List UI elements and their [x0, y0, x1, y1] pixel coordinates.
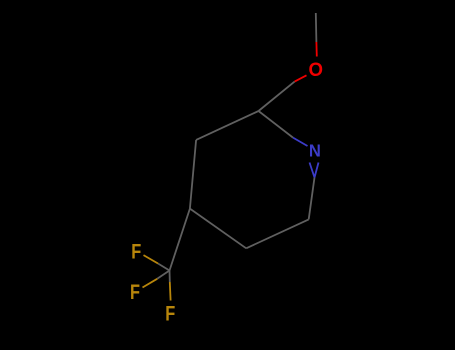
svg-text:F: F — [131, 240, 141, 263]
svg-text:O: O — [308, 60, 323, 81]
wire CF3-F3 bond fluorine half — [169, 282, 172, 301]
svg-text:N: N — [309, 141, 321, 161]
wire CF3-F3 bond carbon half — [169, 271, 171, 283]
wire C2-N bond carbon half — [259, 111, 294, 138]
wire ring bond v1-Rcf — [190, 209, 246, 249]
wire O-C2 bond carbon half — [259, 82, 295, 111]
wire N=C1 double bond right stroke (blue) — [315, 163, 319, 178]
wire Rcf-CF3 carbon bond — [170, 209, 190, 271]
wire N=C1 double bond carbon half — [309, 178, 315, 220]
wire ring bond Rcf-v3 — [190, 140, 196, 209]
wire ring bond v3-C2 — [196, 111, 258, 140]
wire CF3-F1 bond fluorine half — [144, 255, 159, 263]
wire methyl C-O bond carbon half — [315, 13, 318, 42]
svg-text:F: F — [130, 281, 140, 304]
wire CF3-F2 bond carbon half — [157, 271, 169, 279]
wire N=C1 double bond left stroke (blue) — [310, 163, 315, 178]
wire C2-N bond nitrogen half — [293, 138, 308, 146]
wire CF3-F2 bond fluorine half — [143, 279, 158, 288]
wire CF3-F1 bond carbon half — [158, 264, 170, 271]
svg-text:F: F — [165, 303, 175, 326]
wire ring bond C1-v1 — [246, 219, 309, 248]
wire methyl C-O bond oxygen half — [315, 42, 317, 57]
wire O-C2 bond oxygen half — [295, 75, 307, 81]
